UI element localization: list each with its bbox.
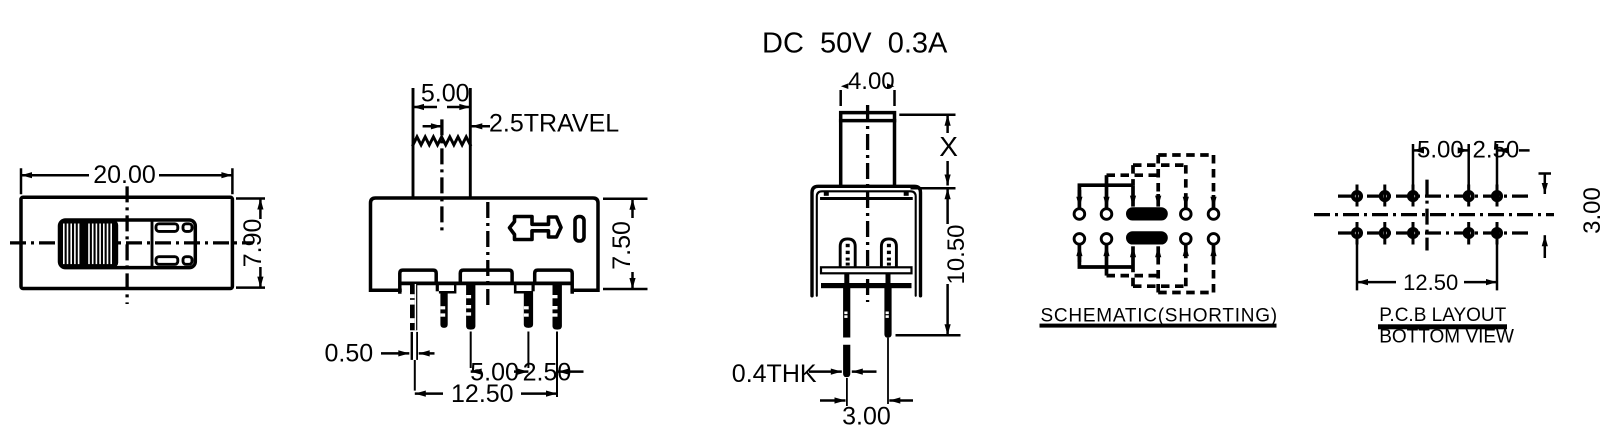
side bottom bar — [821, 283, 912, 288]
schematic top wire dashed L4 — [1158, 153, 1213, 157]
schematic bottom wire dashed L8 — [1158, 291, 1213, 295]
pcb dimension text 2.50 — [1473, 137, 1520, 164]
dimension text 2.50 (front bottom) — [523, 359, 572, 387]
svg-text:3.00: 3.00 — [1579, 187, 1606, 234]
dimension 7.90 extension lines — [236, 199, 265, 288]
slider cover slot top-left — [156, 224, 178, 232]
schematic bottom row contact circles — [1074, 234, 1219, 245]
side pin stems through plate — [844, 273, 890, 283]
dimension text X — [939, 131, 958, 162]
schematic bottom solid arrow pin1 — [1078, 245, 1082, 262]
dimension text 7.50 rotated — [608, 221, 636, 270]
svg-text:2.5TRAVEL: 2.5TRAVEL — [489, 110, 619, 138]
title text DC 50V 0.3A — [762, 27, 948, 59]
schematic top shorting bar — [1126, 207, 1168, 220]
pin 4 extension line — [527, 332, 529, 369]
schematic top dashed arrow pin4 — [1184, 165, 1188, 208]
side pin right extension line — [887, 338, 889, 404]
dimension text 0.50 — [325, 340, 374, 368]
pcb dimension text 3.00 rotated — [1579, 187, 1606, 234]
side lower pin left — [843, 288, 850, 377]
pin 1 (0.5 wide) — [409, 283, 418, 360]
svg-text:2.50: 2.50 — [1473, 137, 1520, 164]
side upper pin B outline — [881, 239, 896, 267]
top view body outline — [21, 197, 232, 288]
schematic top solid arrow onto bar left — [1131, 185, 1135, 206]
schematic top wire dashed L3 — [1133, 165, 1186, 185]
schematic top dashed arrow onto bar right — [1156, 155, 1160, 207]
pcb dimension 3.00 arrows — [1539, 174, 1552, 259]
dimension 20.00 extension lines — [21, 168, 232, 194]
slider knob serrated grip (hatched) — [60, 220, 119, 268]
dimension text 0.4THK — [732, 360, 817, 388]
schematic top row contact circles — [1074, 209, 1219, 220]
travel arrow inside knob — [423, 125, 442, 128]
pcb dimension text 5.00 — [1417, 137, 1464, 164]
side body frame inner — [817, 191, 916, 295]
dimension 3.00 lines with arrows — [820, 399, 913, 402]
front bottom plate line — [400, 281, 572, 285]
svg-text:3.00: 3.00 — [842, 402, 891, 430]
pcb caption underline — [1378, 324, 1507, 329]
dimension 0.50 leader arrows — [381, 352, 435, 355]
dimension text 3.00 (side) — [842, 402, 891, 430]
dimension 12.50 lines with arrows — [415, 392, 557, 395]
schematic bottom solid arrow onto bar left — [1131, 246, 1135, 267]
dimension 20.00 lines with arrows — [21, 174, 232, 177]
pin 1 extension line — [414, 360, 416, 391]
pin 3 extension line — [470, 332, 472, 369]
pcb dimension 5.00 2.50 extension lines — [1413, 144, 1497, 188]
dimension 5.00 (knob) line with arrows — [413, 106, 470, 109]
slider divider line — [151, 221, 154, 267]
pin 5 extension line — [556, 332, 558, 398]
side centerline — [866, 105, 869, 302]
side contact plate — [821, 267, 912, 273]
svg-text:SCHEMATIC(SHORTING): SCHEMATIC(SHORTING) — [1041, 306, 1278, 327]
dimension text 20.00 — [93, 161, 156, 189]
svg-text:12.50: 12.50 — [1403, 270, 1458, 295]
pin 4 shoulder notch — [514, 283, 535, 293]
slider cover slot top-right — [183, 224, 192, 232]
schematic bottom dashed arrow pin5 — [1212, 245, 1216, 292]
schematic bottom shorting bar — [1126, 231, 1168, 244]
svg-text:10.50: 10.50 — [943, 224, 970, 284]
side pin left extension line — [846, 378, 848, 406]
top view vertical centerline — [125, 186, 128, 304]
pcb dimension 5.00 2.50 arrows — [1413, 149, 1530, 152]
side inner top line — [822, 191, 912, 199]
front knob break zigzag — [413, 137, 470, 145]
schematic bottom dashed arrow onto bar right — [1156, 246, 1160, 292]
side body frame outer — [812, 186, 921, 295]
pcb caption text line 1 — [1379, 305, 1506, 326]
dimension 10.50 lines with arrows — [946, 188, 949, 335]
svg-text:12.50: 12.50 — [451, 380, 514, 408]
pcb middle centerline — [1314, 213, 1554, 216]
mounting tab 2 — [460, 270, 512, 283]
travel leader arrow — [471, 125, 490, 128]
schematic top wire dashed L2 — [1107, 173, 1159, 177]
pcb row 2 centerline — [1338, 231, 1531, 234]
dimension text 10.50 rotated — [943, 224, 970, 284]
svg-text:7.50: 7.50 — [608, 221, 636, 270]
dimension text 4.00 — [848, 68, 895, 95]
svg-text:X: X — [939, 131, 958, 162]
svg-text:0.50: 0.50 — [325, 340, 374, 368]
mounting tab 3 — [535, 270, 573, 292]
schematic caption underline — [1040, 324, 1277, 328]
svg-text:0.4THK: 0.4THK — [732, 360, 817, 388]
dimension 5.00 2.50 lines (front bottom) — [471, 370, 584, 373]
svg-text:P.C.B LAYOUT: P.C.B LAYOUT — [1379, 305, 1506, 326]
schematic top dashed arrow pin5 — [1212, 155, 1216, 208]
svg-text:7.90: 7.90 — [239, 219, 267, 268]
mounting tab 1 — [400, 270, 436, 292]
pin 4 — [524, 291, 533, 328]
pcb caption text line 2 — [1379, 326, 1514, 347]
dimension X extension line (knob top) — [899, 114, 955, 117]
svg-text:5.00: 5.00 — [421, 79, 470, 107]
dimension 10.50 extension lines — [896, 188, 961, 335]
pin 5 — [553, 283, 562, 329]
front knob sides — [413, 90, 470, 198]
side upper pin A contacts — [846, 244, 850, 266]
pin 2 — [440, 291, 447, 328]
svg-text:20.00: 20.00 — [93, 161, 156, 189]
svg-text:5.00: 5.00 — [1417, 137, 1464, 164]
side knob — [841, 113, 895, 186]
front body outline — [371, 198, 599, 290]
dimension text 12.50 (front) — [451, 380, 514, 408]
front knob centerline — [440, 119, 443, 232]
dimension text 5.00 (knob) — [421, 79, 470, 107]
pcb vertical centerline — [1425, 180, 1428, 251]
schematic top solid wire — [1079, 185, 1133, 201]
pcb holes row 1 tick marks — [1357, 185, 1497, 207]
pcb dimension 12.50 extension lines — [1357, 240, 1497, 290]
pcb dimension 12.50 lines with arrows — [1357, 281, 1497, 284]
dimension 4.00 extension lines — [841, 90, 895, 106]
side upper pin B contacts — [887, 244, 891, 266]
dimension text 5.00 (front bottom) — [470, 359, 519, 387]
slider assembly outline — [60, 220, 196, 268]
slider cover slot bottom-left — [156, 257, 178, 265]
slider cover slot bottom-right — [183, 257, 192, 265]
pcb holes row 2 tick marks — [1357, 222, 1497, 245]
schematic bottom wire dashed L7 — [1133, 267, 1186, 286]
side lower pin right — [884, 288, 891, 338]
dimension 7.50 extension lines — [603, 199, 648, 289]
pcb holes row 2 — [1353, 229, 1501, 237]
schematic bottom solid wire — [1079, 252, 1133, 267]
schematic top solid arrow pin1 — [1078, 190, 1082, 208]
schematic top arrow pin2 — [1105, 175, 1109, 208]
bone-shaped cutout in front body — [510, 217, 562, 240]
dimension text 2.5TRAVEL — [489, 110, 619, 138]
top view horizontal centerline — [10, 241, 253, 244]
svg-text:2.50: 2.50 — [523, 359, 572, 387]
dimension X line with arrows — [946, 115, 949, 186]
front body centerline — [486, 202, 489, 306]
schematic caption text — [1041, 306, 1278, 327]
pcb row 1 centerline — [1338, 194, 1531, 197]
pin 2 shoulder notch — [436, 283, 457, 293]
schematic bottom wire dashed L6 — [1107, 274, 1159, 278]
side upper pin A outline — [840, 239, 855, 267]
schematic bottom arrow pin2 — [1105, 245, 1109, 276]
pcb holes row 1 — [1353, 192, 1501, 200]
small vertical slot in front body — [575, 217, 584, 242]
dimension 7.50 lines with arrows — [631, 199, 634, 289]
dimension 7.90 lines with arrows — [259, 199, 262, 288]
dimension 0.4THK arrows — [809, 370, 877, 373]
pcb dimension text 12.50 — [1403, 270, 1458, 295]
schematic bottom dashed arrow pin4 — [1184, 245, 1188, 286]
svg-text:BOTTOM VIEW: BOTTOM VIEW — [1379, 326, 1514, 347]
svg-text:DC 50V 0.3A: DC 50V 0.3A — [762, 27, 948, 59]
svg-text:4.00: 4.00 — [848, 68, 895, 95]
pin 3 — [466, 283, 475, 329]
dimension 4.00 arrows — [841, 83, 895, 89]
dimension text 7.90 rotated — [239, 219, 267, 268]
